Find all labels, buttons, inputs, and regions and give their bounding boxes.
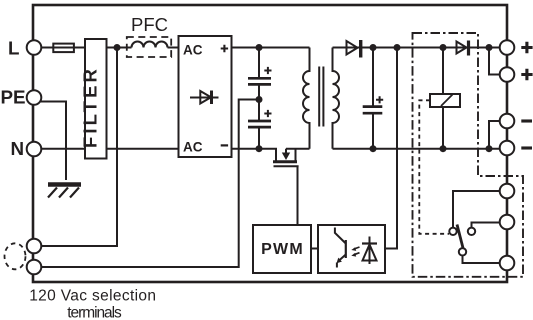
opto LED <box>369 237 371 265</box>
ground (protective earth) <box>48 182 81 187</box>
wire - terminals bracket <box>489 121 500 149</box>
FILTER block <box>85 39 107 159</box>
wire + terminals bracket <box>489 48 500 75</box>
relay terminal c3 <box>500 256 515 271</box>
wire rectifier + to transformer primary top <box>232 47 310 49</box>
svg-text:PE: PE <box>1 87 26 108</box>
relay contact point b <box>468 228 475 235</box>
rectifier + mark <box>221 45 228 52</box>
wire relay contact c3 <box>463 256 501 264</box>
selection terminal S2 <box>27 260 42 275</box>
left terminal N <box>27 142 42 157</box>
node relay branch bottom <box>440 145 447 152</box>
capacitor C3 <box>372 48 374 107</box>
wire relay coil top <box>442 48 444 95</box>
output terminal +1 <box>500 40 515 55</box>
label - (terminal 3) <box>521 119 532 122</box>
relay contact point c <box>459 248 466 255</box>
output terminal -1 <box>500 114 515 129</box>
selection jumper (dashed ellipse) <box>5 243 26 269</box>
wire relay contact c2 <box>472 223 501 228</box>
PFC dashed box <box>127 37 171 57</box>
capacitor C2 <box>258 100 260 122</box>
selection terminal S1 <box>27 239 42 254</box>
label + (terminal 1) <box>521 42 532 53</box>
wire PWM to optocoupler <box>311 248 318 250</box>
node relay branch top <box>440 44 447 51</box>
relay terminal c2 <box>500 215 515 230</box>
rectifier - mark <box>221 144 228 146</box>
svg-text:120 Vac selection: 120 Vac selection <box>29 288 156 305</box>
wire L to fuse to FILTER <box>41 47 85 49</box>
wire inductor to rectifier <box>168 47 179 49</box>
secondary bottom rail <box>333 148 501 150</box>
wire FILTER to rectifier (top) <box>107 47 132 49</box>
opto phototransistor <box>345 240 347 258</box>
transformer T1 primary <box>303 48 310 149</box>
node bulk cap top <box>256 44 263 51</box>
optocoupler U2 <box>318 225 385 273</box>
wire FILTER to rectifier (bottom) <box>107 148 179 150</box>
node C2 bottom <box>256 145 263 152</box>
output diode D1 <box>347 41 358 55</box>
fuse F1 <box>53 44 74 53</box>
relay terminal c1 <box>500 184 515 199</box>
node between C1 C2 <box>256 96 263 103</box>
wire N to FILTER (bottom) <box>41 148 85 150</box>
output terminal +2 <box>500 67 515 82</box>
node opto feedback tap <box>394 44 401 51</box>
wire relay coil bottom <box>442 107 444 149</box>
wire rectifier - to MOSFET source <box>232 149 277 161</box>
secondary top rail to +1 terminal <box>333 47 501 49</box>
MOSFET Q1 <box>285 149 287 153</box>
svg-text:N: N <box>11 138 25 159</box>
svg-text:L: L <box>8 38 19 59</box>
bridge rectifier block <box>179 36 232 157</box>
svg-text:PWM: PWM <box>261 241 304 258</box>
dash-dot relay option region <box>413 33 524 277</box>
wire feedback: rail down to optocoupler <box>385 48 397 249</box>
opto light arrows <box>354 247 360 255</box>
svg-text:terminals: terminals <box>67 305 122 320</box>
left terminal PE <box>27 90 42 105</box>
enclosure border <box>33 5 507 282</box>
svg-text:AC: AC <box>183 43 203 58</box>
capacitor C1 <box>258 48 260 79</box>
wire doubler tap: node down to selection terminal 1 <box>41 48 117 247</box>
relay switch lever <box>457 225 463 249</box>
transformer T1 secondary <box>333 48 340 149</box>
relay contact point a <box>449 228 456 235</box>
rectifier diode icon <box>190 97 219 99</box>
node after filter <box>114 44 121 51</box>
node C3 top <box>370 44 377 51</box>
output terminal -2 <box>500 141 515 156</box>
svg-text:AC: AC <box>183 140 203 155</box>
label + (terminal 2) <box>521 69 532 80</box>
svg-text:FILTER: FILTER <box>79 66 100 148</box>
wire doubler tap 2: C1/C2 node to selection terminal 2 <box>41 100 259 268</box>
left terminal L <box>27 40 42 55</box>
wire MOSFET gate to PWM <box>297 166 299 225</box>
relay mechanical linkage (dashed) <box>419 100 449 234</box>
label - (terminal 4) <box>521 146 532 149</box>
wire PE to ground <box>40 102 66 181</box>
node C3 bottom <box>370 145 377 152</box>
node - bracket <box>486 145 493 152</box>
transformer core <box>319 67 323 127</box>
relay coil K1 <box>430 94 460 107</box>
wire relay contact c1 <box>453 191 500 228</box>
relay diode D2 <box>457 42 467 54</box>
node + bracket <box>486 44 493 51</box>
PWM controller block <box>253 225 311 273</box>
svg-text:PFC: PFC <box>131 14 168 35</box>
inductor L1 (PFC choke) <box>132 42 168 48</box>
